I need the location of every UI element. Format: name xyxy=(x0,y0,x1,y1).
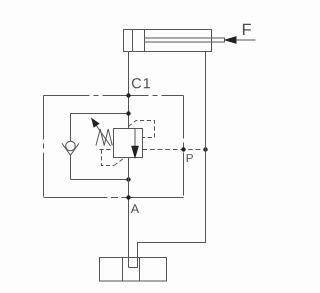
pilot line bottom-left (dashed) xyxy=(100,150,125,166)
pilot line to P (dashed) xyxy=(143,149,206,151)
junction top xyxy=(126,111,130,115)
enclosure dash-dot boundary left xyxy=(43,96,45,198)
manifold block divider left xyxy=(122,258,124,282)
wire cylinder cap port down to valve inlet xyxy=(128,52,130,129)
force arrow F xyxy=(225,37,236,43)
node A xyxy=(126,195,130,199)
cylinder piston xyxy=(132,30,134,52)
wire check-valve branch top xyxy=(71,113,129,115)
wire check-valve branch left lower xyxy=(70,155,72,179)
node C1 xyxy=(126,93,130,97)
enclosure dash-dot boundary bottom xyxy=(44,197,184,199)
wire check-valve branch left upper xyxy=(70,114,72,142)
label C1 xyxy=(132,78,150,88)
wire bottom U-turn to cylinder rod side xyxy=(129,52,206,268)
spring xyxy=(96,129,112,146)
wire valve outlet down through A xyxy=(128,158,130,268)
check valve ball xyxy=(66,141,76,151)
label F xyxy=(243,24,251,35)
label A xyxy=(131,204,139,213)
valve flow path arrow xyxy=(134,129,136,147)
wire check-valve branch bottom xyxy=(71,179,129,181)
spring adjustment arrow xyxy=(96,125,111,146)
check valve seat xyxy=(62,143,79,155)
label P xyxy=(187,154,193,162)
node pilot at cylinder line xyxy=(203,147,207,151)
manifold block divider right xyxy=(139,258,141,282)
pilot line top (dashed) xyxy=(129,121,155,138)
node P xyxy=(181,147,185,151)
enclosure dash-dot boundary top xyxy=(44,95,184,97)
manifold block xyxy=(100,258,167,282)
cylinder body xyxy=(124,30,212,52)
enclosure dash-dot boundary right xyxy=(183,96,185,198)
junction bottom xyxy=(126,177,130,181)
cylinder rod xyxy=(145,38,225,42)
counterbalance valve body xyxy=(114,129,143,158)
